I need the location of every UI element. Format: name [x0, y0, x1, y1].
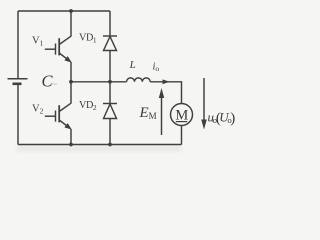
wire midpoint to inductor — [71, 81, 127, 83]
diode VD2 — [103, 104, 117, 119]
junction dot bottom V2 — [69, 143, 73, 147]
wire V1 collector lead — [70, 11, 72, 37]
junction dot bottom VD2 — [108, 143, 112, 147]
wire bottom bus — [18, 144, 182, 146]
svg-text:EM: EM — [139, 105, 157, 121]
svg-text:V2: V2 — [32, 104, 44, 116]
scan shadow under bottom bus — [17, 146, 181, 151]
wire VD1 anode to VD2 cathode — [109, 51, 111, 104]
wire VD2 anode to bottom bus — [109, 119, 111, 145]
svg-text:VD2: VD2 — [79, 100, 97, 112]
label uo(Uo) — [208, 109, 236, 126]
output voltage arrow — [201, 78, 207, 130]
inductor L coils — [127, 78, 151, 82]
svg-text:VD1: VD1 — [79, 32, 97, 44]
transistor V1 — [45, 36, 71, 61]
transistor V2 emitter arrowhead — [64, 123, 71, 130]
junction dot VD midpoint — [108, 80, 112, 84]
wire VD1 cathode lead — [109, 11, 111, 36]
current io arrowhead on wire — [163, 79, 170, 84]
transistor V2 — [45, 103, 71, 128]
motor M circle — [171, 104, 193, 126]
svg-text:io: io — [153, 62, 160, 74]
svg-text:M: M — [175, 107, 188, 123]
wire left upper (source top lead) — [17, 11, 19, 79]
wire V2 emitter to bottom bus — [70, 129, 72, 145]
EMF EM arrow — [159, 88, 164, 135]
svg-text:V1: V1 — [32, 36, 44, 48]
junction dot midpoint — [69, 80, 73, 84]
wire motor to bottom bus — [181, 126, 183, 145]
diode VD1 — [103, 36, 117, 51]
junction dot top — [69, 9, 73, 13]
label C leader dash — [52, 83, 57, 85]
wire top bus — [18, 10, 110, 12]
svg-text:C: C — [42, 72, 54, 91]
svg-text:L: L — [129, 59, 136, 71]
transistor V1 emitter arrowhead — [64, 56, 71, 63]
wire inductor to motor corner — [150, 82, 181, 104]
motor M underline — [176, 121, 187, 123]
wire V2 collector lead — [70, 82, 72, 104]
battery (source) plates — [8, 79, 28, 84]
svg-text:): ) — [230, 110, 235, 126]
wire left lower (source bottom lead) — [17, 84, 19, 145]
wire V1 emitter to midpoint — [70, 62, 72, 82]
